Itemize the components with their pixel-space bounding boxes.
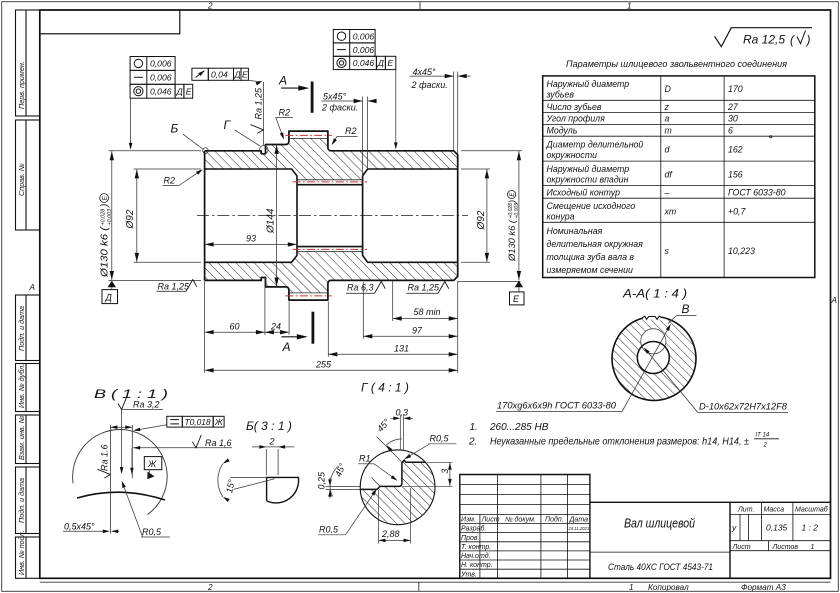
svg-text:0,5х45°: 0,5х45° [64,521,95,531]
outer spline circle [612,317,696,401]
svg-text:1: 1 [629,583,634,592]
tooth notch at top (detail B zone) [643,313,662,319]
internal spline tip lines Ø62 [297,184,363,186]
svg-text:Ø144: Ø144 [266,208,277,234]
svg-text:2,88: 2,88 [381,529,400,539]
svg-text:Д: Д [176,86,183,96]
svg-text:a: a [665,114,670,124]
svg-text:№ докум.: № докум. [505,515,536,523]
dimension 0,25 (step) [326,485,361,487]
svg-text:Д: Д [234,70,241,80]
svg-text:Неуказанные предельные отклоне: Неуказанные предельные отклонения размер… [490,437,749,448]
svg-text:Изм.: Изм. [461,516,476,523]
svg-text:D-10х62х72H7х12F8: D-10х62х72H7х12F8 [699,402,787,412]
table row: Диаметр делительной окружности d 162 [546,139,743,160]
extension lines for bottom dims [205,279,521,373]
table row: Смещение исходного конура xm +0,7 [547,201,747,222]
svg-text:30: 30 [728,114,738,124]
svg-text:Е: Е [242,70,248,80]
dimension 93 [205,243,297,245]
svg-text:толщика зуба вала в: толщика зуба вала в [547,252,635,262]
svg-text:у: у [731,523,737,533]
tolerance frame (circularity / straightness / coaxiality) left [130,57,193,99]
svg-text:170хg6х6х9h ГОСТ 6033-80: 170хg6х6х9h ГОСТ 6033-80 [497,401,616,411]
svg-text:Ø92: Ø92 [125,209,136,229]
svg-text:4х45°: 4х45° [413,67,437,77]
svg-text:R0,5: R0,5 [430,434,450,444]
svg-text:27: 27 [727,102,739,112]
dimension 24 [265,331,289,333]
outer break arc [73,430,168,515]
svg-text:Смещение исходного: Смещение исходного [547,201,636,211]
svg-text:Угол профиля: Угол профиля [546,114,606,124]
svg-text:делительная окружная: делительная окружная [547,239,644,249]
svg-text:Лит.: Лит. [737,507,754,514]
svg-text:Справ. №: Справ. № [17,163,26,196]
leader from 0,04 frame down to groove [248,80,261,81]
svg-text:93: 93 [246,234,256,244]
datum flag Е [515,281,523,287]
svg-text:170: 170 [728,84,743,94]
svg-text:Наружный диаметр: Наружный диаметр [547,164,630,174]
svg-text:Ж: Ж [147,459,157,469]
shaft centerline [197,215,468,217]
svg-text:Сталь 40ХС ГОСТ 4543-71: Сталь 40ХС ГОСТ 4543-71 [608,562,713,573]
svg-text:Е: Е [513,294,520,304]
svg-text:Б: Б [171,122,179,136]
lower wall hatched section [205,252,458,293]
chamfer surface edge lines [109,425,111,534]
svg-text:R2: R2 [279,108,291,118]
svg-text:+0,7: +0,7 [728,206,746,216]
svg-text:конура: конура [547,212,575,222]
svg-text:1: 1 [811,544,815,551]
svg-text:Ra 3,2: Ra 3,2 [133,400,160,410]
table row: Число зубьев z 27 [547,102,739,112]
section body hatch [612,317,696,401]
external spline pitch lines Ø162 (red dash-dot) [285,135,332,296]
svg-text:Ra 6,3: Ra 6,3 [347,282,374,292]
svg-text:60: 60 [230,322,240,332]
svg-text:Перв. примен.: Перв. примен. [17,61,26,109]
svg-text:Е: Е [387,58,393,68]
groove profile (bold) [360,460,425,489]
svg-text:): ) [100,204,111,208]
svg-text:Ж: Ж [214,417,224,427]
dimension Ø144 [276,145,278,287]
svg-text:+0,003: +0,003 [514,203,520,219]
svg-text:Подп. и дата: Подп. и дата [17,306,26,351]
svg-text:5х45°: 5х45° [323,92,347,102]
svg-text:окружности впадин: окружности впадин [547,175,629,185]
dimension text Ø130 k6 (+0,028+0,003) E left [100,194,113,279]
svg-text:R1: R1 [359,454,371,464]
svg-text:1 : 2: 1 : 2 [802,523,819,533]
svg-text:58 min: 58 min [414,307,441,317]
svg-text:E: E [102,195,109,200]
svg-text:Н. контр.: Н. контр. [461,562,493,569]
svg-text:Взам. инв. №: Взам. инв. № [17,415,26,460]
svg-text:R2: R2 [345,126,357,136]
svg-text:R0,5: R0,5 [319,525,339,535]
bottom margin strip [40,581,831,583]
svg-text:1: 1 [627,1,632,10]
svg-text:z: z [664,102,670,112]
tolerance frame (circularity / straightness / coaxiality) right [333,30,396,70]
Ra 3,2 roughness with vertical leader [121,410,123,472]
dimension Ø92 right [461,169,490,262]
title block header texts [460,515,588,578]
svg-text:0,046: 0,046 [150,86,172,96]
datum flag Д [108,281,116,287]
table row: Исходный контур - ГОСТ 6033-80 [547,188,786,198]
dimension Ø130 k6 right [461,151,522,281]
svg-text:260...285 НВ: 260...285 НВ [489,422,549,433]
svg-text:2.: 2. [468,437,477,448]
left frame leader to Ø130 extension [130,98,132,147]
svg-text:Нач.отд.: Нач.отд. [461,552,491,560]
svg-text:2: 2 [763,443,768,449]
svg-text:А: А [831,296,838,305]
dimension 3 (groove depth) [427,461,452,463]
svg-text:0,006: 0,006 [353,45,375,55]
svg-text:1.: 1. [470,422,478,433]
top-left repeated designation box [40,10,180,34]
svg-text:Г ( 4 : 1 ): Г ( 4 : 1 ) [361,381,409,395]
svg-text:Формат А3: Формат А3 [741,583,786,592]
bore Ø92 and internal spline bore outline [205,169,458,262]
external spline root lines Ø156 (thin) [289,138,328,293]
svg-text:97: 97 [412,325,423,335]
dimension 131 [328,353,457,355]
svg-text:+0,003: +0,003 [107,209,113,226]
svg-text:Ø130 k6 (: Ø130 k6 ( [507,219,517,262]
15° angle callout [234,479,275,490]
svg-text:Инв. № дубл.: Инв. № дубл. [17,364,26,408]
svg-text:В: В [682,302,690,316]
svg-text:10,223: 10,223 [728,246,755,256]
svg-text:Ø92: Ø92 [476,210,487,230]
table row: Наружный диаметр окружности впадин df 156 [547,164,743,185]
svg-text:131: 131 [394,343,409,353]
svg-text:зубьев: зубьев [546,90,575,100]
svg-text:Диаметр делительной: Диаметр делительной [546,139,644,149]
svg-text:Листов: Листов [772,544,799,551]
svg-text:0,3: 0,3 [396,408,409,418]
svg-text:Е: Е [186,86,192,96]
svg-text:Лист: Лист [481,516,500,523]
dimension 2,88 [378,490,380,544]
quarter-round lip profile [267,477,299,503]
svg-text:0,006: 0,006 [353,31,375,41]
svg-text:–: – [664,188,670,198]
bore circle [637,342,669,374]
svg-text:0,006: 0,006 [150,59,172,69]
svg-text:Номинальная: Номинальная [547,226,603,236]
svg-text:Т0,018: Т0,018 [185,417,211,427]
svg-text:s: s [665,246,670,256]
svg-text:Ra 12,5: Ra 12,5 [743,33,785,47]
svg-text:Ra 1.6: Ra 1.6 [100,444,110,471]
svg-text:0,006: 0,006 [150,73,172,83]
svg-text:окружности: окружности [547,150,598,160]
dimension Ø130 k6 left: extension lines [109,151,202,281]
svg-text:Копировал: Копировал [648,583,689,592]
svg-text:3: 3 [440,469,450,474]
internal spline pitch lines (red dash-dot) [293,182,367,250]
svg-text:Лист: Лист [732,544,751,551]
svg-text:Д: Д [105,293,113,303]
svg-text:2 фаски.: 2 фаски. [411,80,448,90]
45° chamfer callout (top) [377,437,402,462]
dimension 97 [363,335,457,337]
svg-text:Разраб.: Разраб. [461,525,486,533]
svg-text:Б( 3 : 1 ): Б( 3 : 1 ) [246,419,292,433]
svg-text:255: 255 [315,359,332,369]
svg-text:0,135: 0,135 [766,523,788,533]
svg-text:Д: Д [377,58,384,68]
svg-text:24.11.2021: 24.11.2021 [568,526,590,531]
svg-text:IT 14: IT 14 [756,433,770,439]
svg-text:6: 6 [728,126,733,136]
svg-text:R0,5: R0,5 [142,527,162,537]
top margin zone tick [419,2,421,10]
svg-text:Подп.: Подп. [545,515,564,523]
internal spline auxiliary circle [641,329,666,354]
svg-text:): ) [507,200,517,204]
svg-text:2: 2 [207,583,213,592]
dimension Ø92 left [134,169,202,262]
svg-text:Ra 1,25: Ra 1,25 [408,282,441,292]
svg-text:+0,028: +0,028 [101,209,107,226]
svg-text:А: А [29,283,36,292]
left stamp rotated labels [17,61,26,575]
radial runout frame 0,04 Д Е [192,68,249,80]
svg-text:Инв. № подл.: Инв. № подл. [17,530,26,575]
dimension 58 min [393,318,458,320]
table row: Наружный диаметр зубьев D 170 [546,79,743,100]
svg-text:Пров.: Пров. [461,535,480,542]
datum flag Ж [144,457,162,470]
shaft outer profile outline [205,131,458,300]
svg-text:0,25: 0,25 [316,471,326,490]
detail bubble circle with hatched metal [360,460,435,525]
dimension 60 [205,331,265,333]
svg-text:Модуль: Модуль [547,126,578,136]
svg-text:Ra 1,6: Ra 1,6 [205,438,232,448]
svg-text:Масштаб: Масштаб [795,506,829,514]
svg-text:Ra 1,25: Ra 1,25 [254,87,264,120]
svg-text:162: 162 [728,145,743,155]
symmetry tolerance frame T0,018 Ж [167,416,224,427]
svg-text:156: 156 [728,169,743,179]
width ticks at top [110,426,132,428]
dimension 0,3 [399,415,401,451]
svg-text:0,046: 0,046 [353,58,375,68]
section mark А (bottom): arrow, thick stroke, letter [281,336,299,338]
svg-text:2: 2 [269,437,275,447]
sheet row [732,544,815,551]
45° chamfer callout (left) [372,478,381,487]
tooth surface arc (bold) [77,492,165,500]
svg-text:А-А( 1 : 4 ): А-А( 1 : 4 ) [622,287,687,301]
svg-text:2: 2 [207,1,213,10]
table row: Угол профиля a 30 [546,114,738,124]
svg-text:R2: R2 [164,176,176,186]
svg-text:Наружный диаметр: Наружный диаметр [547,79,630,89]
extension line left [230,476,267,478]
svg-text:Ra 1,25: Ra 1,25 [158,282,191,292]
dimension 2 [265,449,267,475]
svg-text:измеряемом сечении: измеряемом сечении [547,265,633,275]
svg-text:Ø130 k6 (: Ø130 k6 ( [100,225,111,278]
dimension 255 [205,369,458,371]
svg-text:0,04: 0,04 [211,70,228,80]
svg-text:А: А [278,74,287,88]
svg-text:ГОСТ 6033-80: ГОСТ 6033-80 [728,188,786,198]
Ra 1,6 roughness with horizontal leader [133,447,232,449]
svg-text:m: m [665,126,672,136]
table row: Модуль m 6 [547,126,734,136]
table row: Номинальная делительная окружная толщика зуба вала s 10,223 [547,226,756,275]
svg-text:А: А [282,340,291,354]
svg-text:24: 24 [270,322,281,332]
internal spline root lines Ø72 (thin) [297,180,363,252]
svg-text:Т. контр.: Т. контр. [461,544,491,551]
svg-text:Число зубьев: Число зубьев [547,102,602,112]
svg-text:Дата: Дата [569,516,589,523]
svg-text:Исходный контур: Исходный контур [547,188,621,198]
table grid [543,76,815,278]
svg-text:Параметры шлицевого звольвентн: Параметры шлицевого звольвентного соедин… [566,59,787,70]
svg-text:Вал шлицевой: Вал шлицевой [624,517,695,531]
litera/mass/scale headers [737,506,829,514]
svg-text:Масса: Масса [764,507,785,514]
svg-text:Подп. и дата: Подп. и дата [17,478,26,523]
svg-text:xm: xm [664,206,677,216]
upper wall hatched section [205,138,458,179]
svg-text:2 фаски.: 2 фаски. [321,103,358,113]
svg-text:D: D [665,84,672,94]
svg-text:Утв.: Утв. [460,571,477,578]
left stamp column boxes [16,10,40,578]
